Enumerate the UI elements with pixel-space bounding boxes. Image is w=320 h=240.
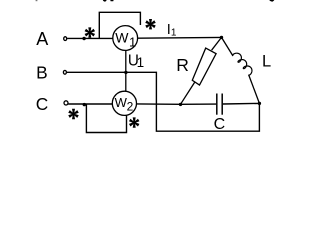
- svg-text:B: B: [36, 62, 48, 82]
- svg-text:1: 1: [129, 34, 136, 49]
- cut-off text remnant top-middle-1: [103, 0, 107, 2]
- voltage-coil connection U1 from W1 through B to W2: [125, 51, 127, 92]
- wire phase A terminal to W1: [67, 37, 113, 39]
- svg-text:W: W: [115, 30, 129, 46]
- node where U1 line meets phase B: [124, 71, 127, 74]
- node on phase C wire: [83, 103, 86, 106]
- svg-text:C: C: [36, 94, 48, 114]
- wattmeter W2: [112, 91, 136, 115]
- wire phase C terminal to W2: [68, 103, 112, 105]
- wire node b to capacitor: [181, 103, 217, 105]
- cut-off text remnant top-left: [36, 0, 38, 1]
- polarity mark * of W2 current coil: [68, 109, 79, 119]
- capacitor C plate left: [216, 94, 218, 115]
- polarity mark * of W1 current coil: [85, 27, 96, 37]
- node on phase A wire: [82, 37, 85, 40]
- wire phase B with crossing down to bottom and to node c: [67, 72, 260, 131]
- cut-off text remnant top-middle-2: [110, 0, 113, 1]
- node c (bottom-right vertex): [258, 102, 261, 105]
- wire resistor R to node b: [181, 82, 195, 104]
- wire node a to inductor L: [222, 37, 234, 56]
- current-coil bridge of W2: [86, 104, 126, 133]
- wire inductor L to node c: [249, 75, 260, 104]
- polarity mark * at W2 output: [129, 117, 140, 127]
- capacitor C plate right: [221, 94, 223, 115]
- svg-text:2: 2: [127, 99, 134, 113]
- resistor R: [192, 48, 216, 85]
- node b (bottom-left vertex): [179, 103, 182, 106]
- terminal A: [64, 37, 67, 41]
- wire phase C from W2 to node b: [137, 103, 181, 105]
- cut-off text remnant top-right: [269, 0, 274, 2]
- wattmeter W1: [113, 26, 138, 51]
- current-coil bridge of W1: [99, 12, 140, 38]
- polarity mark * at W1 output: [145, 19, 156, 29]
- svg-text:1: 1: [137, 55, 145, 70]
- wire node a to resistor R: [212, 37, 222, 50]
- terminal B: [63, 70, 66, 74]
- svg-text:1: 1: [171, 28, 177, 39]
- node a (top vertex): [220, 36, 223, 39]
- inductor L: [232, 51, 254, 75]
- svg-text:R: R: [176, 55, 189, 75]
- svg-text:A: A: [36, 29, 48, 49]
- terminal C: [64, 101, 68, 105]
- svg-text:C: C: [214, 116, 226, 133]
- wire phase A from W1 to node a: [138, 36, 222, 39]
- svg-text:L: L: [262, 53, 271, 71]
- wire capacitor to node c: [223, 102, 260, 105]
